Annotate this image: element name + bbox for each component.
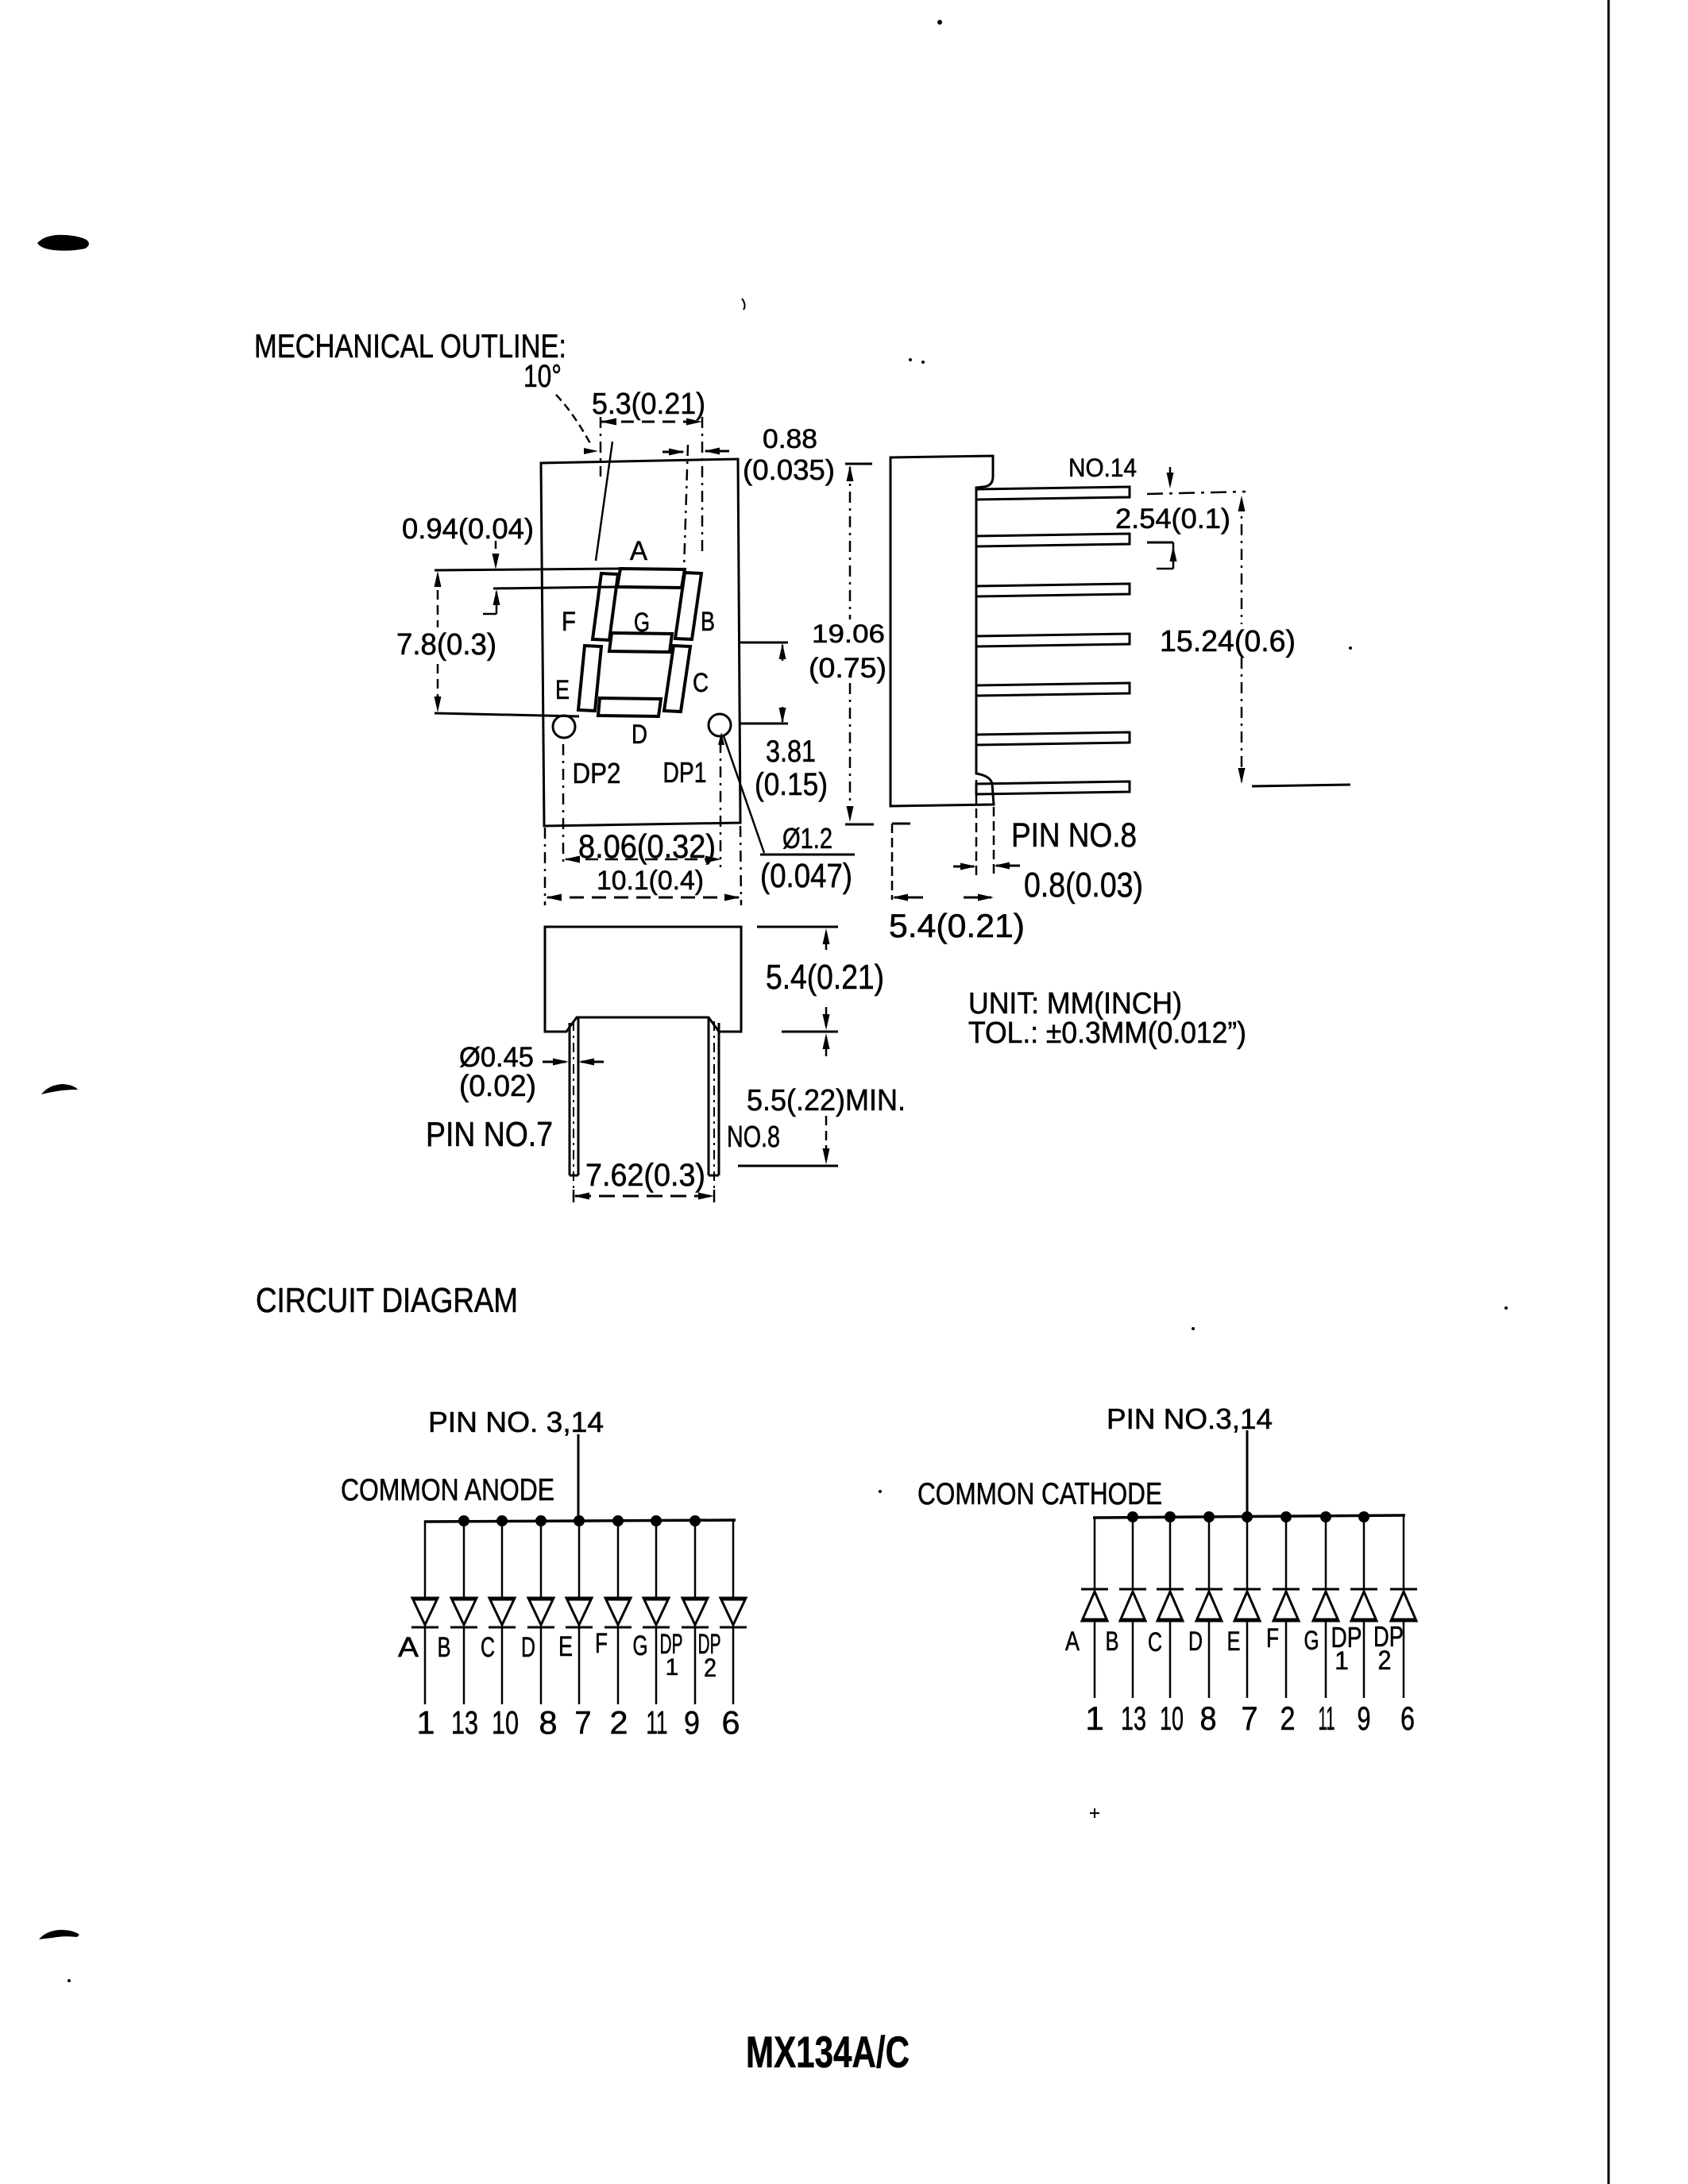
svg-text:13: 13 [451, 1704, 478, 1741]
svg-text:0.88: 0.88 [763, 424, 817, 454]
svg-text:A: A [398, 1632, 419, 1663]
segment A [617, 569, 685, 588]
segment G [609, 633, 672, 652]
wire column F lower (common cathode) [1285, 1621, 1288, 1698]
svg-text:E: E [558, 1631, 573, 1662]
diode DP1 (common anode) [682, 1598, 708, 1625]
wire anode column A upper (common cathode) [1094, 1517, 1096, 1589]
junction dot column DP1 [689, 1515, 701, 1526]
0.8 dim arrows [953, 866, 974, 868]
dim line 5.3 with arrows [601, 421, 702, 423]
svg-text:15.24(0.6): 15.24(0.6) [1160, 625, 1296, 658]
segment A bottom extension line [493, 587, 617, 588]
scan smudge blob 2 (left margin middle) [41, 1084, 78, 1094]
svg-text:10: 10 [492, 1704, 519, 1741]
wire column E lower (common cathode) [1246, 1621, 1249, 1698]
wire common anode bus [424, 1520, 736, 1522]
svg-text:13: 13 [1121, 1700, 1146, 1737]
19.06 bottom tick [845, 824, 874, 826]
wire common anode feed [577, 1434, 580, 1522]
wire column C lower [501, 1627, 504, 1704]
scan smudge blob 3 (left margin bottom) [39, 1930, 79, 1939]
wire anode column DP1 upper (common cathode) [1363, 1517, 1365, 1589]
dim line 8.06 [566, 859, 719, 861]
extension line segment B outer edge [684, 445, 688, 569]
svg-text:F: F [562, 607, 576, 637]
wire column DP1 lower [694, 1627, 697, 1704]
segment A top extension line [435, 569, 620, 570]
wire cathode column A upper [424, 1521, 427, 1598]
svg-text:5.5(.22)MIN.: 5.5(.22)MIN. [747, 1084, 906, 1117]
diode C (common anode) [489, 1598, 515, 1625]
bottom view pin 7 (left) [569, 1023, 571, 1175]
junction dot column G (common cathode) [1320, 1511, 1331, 1522]
svg-text:2: 2 [704, 1653, 717, 1682]
svg-text:A: A [630, 536, 647, 566]
diode G (common anode) [643, 1598, 669, 1625]
svg-text:B: B [438, 1632, 451, 1663]
side view pin 3 [976, 584, 1130, 596]
leader arrow for 10deg [556, 395, 591, 445]
svg-text:5.3(0.21): 5.3(0.21) [592, 388, 705, 421]
junction dot column E [574, 1515, 585, 1526]
junction dot column DP1 (common cathode) [1358, 1511, 1369, 1522]
wire column DP1 lower (common cathode) [1363, 1621, 1365, 1698]
svg-text:Ø0.45: Ø0.45 [459, 1042, 534, 1073]
extension line from DP2 [562, 744, 565, 867]
wire column G lower [655, 1627, 658, 1704]
diode B (common anode) [451, 1598, 477, 1625]
extension line right 10.1 [740, 826, 741, 905]
svg-text:3.81: 3.81 [766, 735, 816, 769]
svg-text:B: B [701, 607, 715, 637]
arrow above segA top line [495, 541, 497, 565]
svg-text:MX134A/C: MX134A/C [746, 2027, 910, 2077]
3.81 bottom extension line [739, 723, 788, 725]
page margin vertical rule [1608, 0, 1610, 2184]
wire column A lower (common cathode) [1094, 1621, 1096, 1698]
svg-text:CIRCUIT DIAGRAM: CIRCUIT DIAGRAM [256, 1281, 518, 1320]
wire column DP2 lower [732, 1627, 735, 1704]
svg-text:NO.8: NO.8 [727, 1121, 780, 1154]
extension line left of 5.3 [600, 417, 602, 477]
2.54 top arrow [1169, 467, 1172, 484]
digit slant centerline 10 deg [596, 442, 612, 561]
5.5 vertical dim arrows [825, 1037, 828, 1056]
svg-text:COMMON ANODE: COMMON ANODE [341, 1473, 554, 1507]
wire anode column B upper (common cathode) [1132, 1517, 1134, 1589]
svg-text:7: 7 [575, 1704, 592, 1741]
svg-text:1: 1 [666, 1654, 679, 1680]
extension line left 10.1 [544, 828, 547, 905]
side view pin 7 [976, 781, 1130, 794]
svg-text:9: 9 [1358, 1700, 1371, 1737]
svg-text:A: A [1065, 1626, 1080, 1657]
segment E [578, 646, 601, 711]
svg-text:5.4(0.21): 5.4(0.21) [766, 958, 884, 997]
5.4 left extension and tick [892, 823, 910, 825]
15.24 bottom extension line [1252, 785, 1350, 786]
3.81 bottom arrow [782, 707, 784, 722]
wire column D lower (common cathode) [1208, 1621, 1211, 1698]
bottom view package body outline [545, 927, 741, 1032]
segment D [598, 698, 661, 716]
svg-text:MECHANICAL OUTLINE:: MECHANICAL OUTLINE: [254, 327, 566, 365]
svg-text:11: 11 [647, 1704, 668, 1741]
diode DP1 (common cathode) [1350, 1588, 1377, 1591]
svg-text:1: 1 [417, 1704, 435, 1741]
19.06 top tick [845, 463, 872, 465]
svg-text:(0.15): (0.15) [755, 767, 828, 802]
dim line 10.1 [547, 897, 739, 899]
svg-text:B: B [1106, 1626, 1119, 1657]
junction dot column G [651, 1515, 662, 1526]
wire column A lower [424, 1627, 427, 1704]
svg-text:TOL.: ±0.3MM(0.012”): TOL.: ±0.3MM(0.012”) [968, 1017, 1246, 1050]
svg-text:7.8(0.3): 7.8(0.3) [396, 628, 496, 662]
junction dot column F [612, 1515, 624, 1526]
wire column C lower (common cathode) [1169, 1621, 1172, 1698]
segment F [593, 573, 618, 640]
svg-text:7.62(0.3): 7.62(0.3) [585, 1158, 705, 1193]
svg-text:G: G [633, 1630, 648, 1661]
svg-text:E: E [555, 675, 570, 705]
svg-text:0.94(0.04): 0.94(0.04) [402, 512, 534, 545]
wire cathode column DP1 upper [694, 1521, 697, 1598]
svg-text:UNIT: MM(INCH): UNIT: MM(INCH) [968, 987, 1182, 1021]
svg-text:COMMON CATHODE: COMMON CATHODE [917, 1477, 1162, 1511]
diode DP2 (common anode) [720, 1598, 746, 1625]
junction dot column B [458, 1515, 469, 1526]
diode DP2 (common cathode) [1390, 1588, 1417, 1591]
diode C (common cathode) [1157, 1588, 1184, 1591]
wire cathode column B upper [463, 1521, 465, 1598]
wire anode column DP2 upper (common cathode) [1403, 1517, 1405, 1589]
3.81 top extension line [739, 642, 788, 644]
svg-text:NO.14: NO.14 [1068, 453, 1137, 482]
leader from DP1 circle [724, 736, 764, 853]
svg-text:5.4(0.21): 5.4(0.21) [889, 907, 1025, 944]
svg-text:F: F [1266, 1623, 1279, 1653]
svg-text:2: 2 [1378, 1646, 1392, 1676]
svg-text:8: 8 [1200, 1700, 1217, 1737]
junction dot column C (common cathode) [1165, 1511, 1176, 1522]
segment C [664, 646, 690, 712]
svg-text:C: C [1148, 1627, 1162, 1657]
pin 8 centerline [713, 1021, 715, 1201]
svg-text:(0.035): (0.035) [743, 453, 835, 486]
diode F (common cathode) [1273, 1588, 1300, 1591]
svg-text:C: C [481, 1632, 495, 1663]
diode E (common anode) [566, 1598, 592, 1625]
junction dot column F (common cathode) [1280, 1511, 1292, 1522]
svg-text:D: D [1188, 1626, 1203, 1657]
wire column G lower (common cathode) [1325, 1621, 1327, 1698]
scan smudge blob 1 (left margin top) [37, 235, 89, 251]
junction dot column B (common cathode) [1127, 1511, 1138, 1522]
side view package body outline [890, 456, 994, 806]
junction dot column D (common cathode) [1203, 1511, 1215, 1522]
svg-text:DP2: DP2 [573, 757, 621, 789]
svg-text:F: F [595, 1628, 608, 1659]
side view pin 2 [976, 534, 1130, 546]
svg-text:7: 7 [1242, 1700, 1258, 1737]
wire column B lower [463, 1627, 465, 1704]
svg-text:0.8(0.03): 0.8(0.03) [1024, 866, 1143, 905]
svg-text:D: D [521, 1632, 535, 1663]
wire common cathode feed [1246, 1430, 1249, 1517]
diode A (common cathode) [1081, 1588, 1108, 1591]
svg-text:9: 9 [684, 1704, 700, 1741]
label underline Ø1.2 [760, 854, 855, 856]
wire anode column E upper (common cathode) [1246, 1517, 1249, 1589]
svg-text:PIN NO. 3,14: PIN NO. 3,14 [428, 1406, 604, 1438]
wire column E lower [578, 1627, 581, 1704]
scan speck dots [937, 20, 942, 25]
segment B [675, 573, 701, 639]
2.54 bottom reference bracket [1147, 542, 1173, 544]
wire column F lower [617, 1627, 620, 1704]
side view pin 4 [976, 634, 1130, 646]
svg-text:1: 1 [1085, 1700, 1103, 1737]
side view pin 1 [976, 487, 1130, 500]
wire anode column D upper (common cathode) [1208, 1517, 1211, 1589]
wire cathode column F upper [617, 1521, 620, 1598]
svg-text:2: 2 [1280, 1700, 1296, 1737]
diode B (common cathode) [1119, 1588, 1146, 1591]
svg-text:(0.047): (0.047) [760, 857, 852, 895]
svg-text:10: 10 [1160, 1700, 1184, 1737]
wire common cathode bus [1093, 1515, 1405, 1518]
dim line 7.8 vertical [437, 575, 439, 627]
3.81 top arrow [782, 645, 784, 661]
svg-text:G: G [1304, 1626, 1319, 1656]
wire anode column F upper (common cathode) [1285, 1517, 1288, 1589]
svg-text:(0.75): (0.75) [809, 653, 886, 684]
svg-text:8.06(0.32): 8.06(0.32) [578, 828, 716, 865]
right side ticks for 5.4/5.5 dims [757, 926, 838, 928]
wire column D lower [540, 1627, 543, 1704]
5.4 dim line with arrows [894, 897, 923, 899]
7.62 dim line [575, 1195, 713, 1198]
bottom view pin 8 (right) [708, 1018, 710, 1175]
junction dot column E (common cathode) [1242, 1511, 1253, 1522]
15.24 dim line [1241, 500, 1243, 624]
wire anode column G upper (common cathode) [1325, 1517, 1327, 1589]
svg-text:2: 2 [610, 1704, 628, 1741]
diode D (common anode) [528, 1598, 554, 1625]
svg-text:6: 6 [1400, 1700, 1415, 1737]
19.06 dim line [849, 467, 852, 619]
svg-text:8: 8 [539, 1704, 558, 1741]
5.4 vertical dim arrows (bottom view) [825, 932, 828, 950]
0.8 extension lines [975, 780, 978, 875]
svg-text:10°: 10° [523, 359, 562, 394]
front view package outline [541, 459, 740, 826]
svg-text:1: 1 [1335, 1646, 1349, 1675]
svg-text:PIN NO.7: PIN NO.7 [426, 1115, 553, 1154]
svg-text:PIN NO.8: PIN NO.8 [1011, 816, 1137, 855]
wire cathode column G upper [655, 1521, 658, 1598]
wire cathode column D upper [540, 1521, 543, 1598]
svg-text:C: C [693, 668, 709, 698]
dim arrows 0.88 [662, 451, 683, 453]
junction dot column C [496, 1515, 508, 1526]
wire column DP2 lower (common cathode) [1403, 1621, 1405, 1698]
pin1 top extension line [1147, 492, 1246, 494]
wire cathode column DP2 upper [732, 1521, 735, 1598]
extension line from DP1 [720, 742, 722, 867]
digit bottom extension line [435, 713, 579, 716]
dia 0.45 dim arrows [543, 1061, 566, 1063]
decimal point DP2 circle [553, 716, 575, 738]
svg-text:11: 11 [1319, 1700, 1335, 1737]
svg-text:E: E [1227, 1626, 1241, 1657]
side view pin 6 [976, 732, 1130, 745]
extension line right of 5.3 [701, 417, 704, 554]
svg-text:(0.02): (0.02) [459, 1070, 536, 1103]
svg-text:2.54(0.1): 2.54(0.1) [1115, 504, 1230, 534]
wire anode column C upper (common cathode) [1169, 1517, 1172, 1589]
svg-text:Ø1.2: Ø1.2 [782, 822, 832, 855]
svg-text:DP1: DP1 [663, 756, 707, 789]
svg-text:G: G [634, 608, 650, 638]
svg-text:10.1(0.4): 10.1(0.4) [597, 866, 704, 896]
arrow below segA bottom line [496, 592, 498, 614]
svg-text:D: D [632, 720, 647, 750]
diode G (common cathode) [1312, 1588, 1339, 1591]
junction dot column D [535, 1515, 547, 1526]
wire cathode column C upper [501, 1521, 504, 1598]
svg-text:PIN NO.3,14: PIN NO.3,14 [1107, 1403, 1273, 1435]
svg-text:19.06: 19.06 [812, 619, 885, 648]
pin 7 centerline [573, 1021, 574, 1201]
diode E (common cathode) [1234, 1588, 1261, 1591]
wire column B lower (common cathode) [1132, 1621, 1134, 1698]
diode D (common cathode) [1196, 1588, 1223, 1591]
diode F (common anode) [605, 1598, 631, 1625]
diode A (common anode) [412, 1598, 438, 1625]
side view pin 5 [976, 683, 1130, 696]
decimal point DP1 circle [709, 714, 731, 736]
wire cathode column E upper [578, 1521, 581, 1598]
svg-text:6: 6 [722, 1704, 740, 1741]
